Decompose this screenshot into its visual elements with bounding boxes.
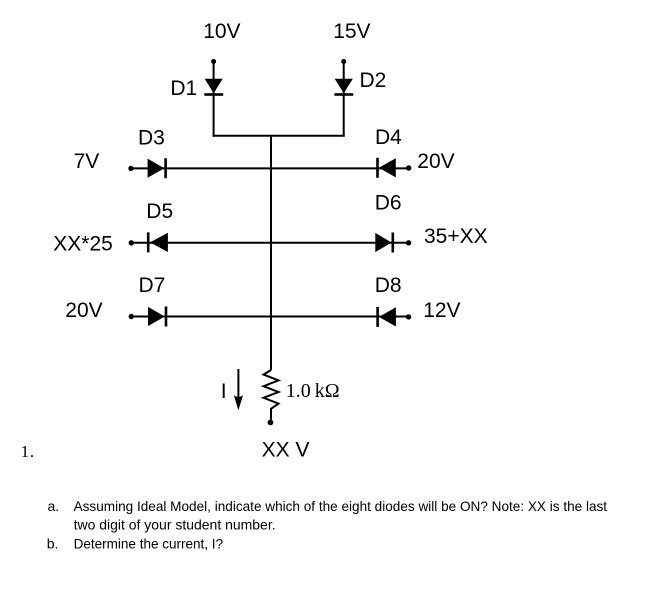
- svg-text:D1: D1: [170, 77, 197, 100]
- diode D6 (cathode right): [375, 233, 394, 253]
- svg-text:a.: a.: [48, 498, 60, 514]
- svg-text:Determine the current, I?: Determine the current, I?: [74, 535, 224, 551]
- wire: 10V terminal to top bus: [213, 62, 215, 137]
- wire: 15V terminal to top bus: [343, 62, 345, 137]
- node dot: 12V terminal row3: [406, 314, 411, 319]
- node dot: 7V terminal: [128, 166, 133, 171]
- svg-text:D2: D2: [360, 69, 387, 92]
- svg-text:1.0kΩ: 1.0kΩ: [286, 380, 340, 402]
- svg-text:15V: 15V: [333, 20, 370, 43]
- svg-text:35+XX: 35+XX: [424, 225, 488, 248]
- svg-text:20V: 20V: [65, 299, 102, 322]
- svg-text:10V: 10V: [203, 20, 240, 43]
- svg-text:I: I: [221, 380, 227, 403]
- node dot: 20V terminal row3: [129, 314, 134, 319]
- diode D7 (cathode right): [148, 307, 167, 327]
- diode D5 (cathode left): [147, 232, 168, 252]
- svg-text:D6: D6: [375, 192, 402, 215]
- wire: row 2 horizontal (XX*25 to 35+XX): [131, 242, 408, 244]
- wire: center vertical node line: [270, 136, 272, 370]
- svg-text:D3: D3: [138, 126, 165, 149]
- wire: row 1 horizontal (7V to 20V): [131, 167, 409, 169]
- svg-text:b.: b.: [47, 535, 59, 551]
- current arrow I shaft: [237, 369, 239, 399]
- diode D2 (cathode down): [334, 79, 353, 96]
- diode D3 (cathode right): [148, 158, 167, 178]
- diode D4 (cathode left): [376, 158, 396, 178]
- svg-text:1.: 1.: [21, 442, 35, 461]
- svg-text:D4: D4: [375, 126, 402, 149]
- diode D1 (cathode down): [204, 79, 223, 96]
- diode D8 (cathode left): [376, 307, 396, 327]
- node dot: 10V terminal: [211, 59, 216, 64]
- svg-text:20V: 20V: [417, 150, 454, 173]
- node dot: XX*25 terminal: [129, 240, 134, 245]
- wire: top bus horizontal: [213, 135, 345, 137]
- svg-text:D8: D8: [375, 274, 402, 297]
- svg-text:7V: 7V: [74, 150, 100, 173]
- node dot: 20V terminal row1: [406, 165, 411, 170]
- svg-text:D7: D7: [139, 274, 166, 297]
- node dot: 15V terminal: [341, 59, 346, 64]
- node dot: XX V bottom terminal: [268, 420, 274, 426]
- svg-text:12V: 12V: [423, 299, 460, 322]
- svg-text:two digit of your student numb: two digit of your student number.: [74, 516, 276, 532]
- svg-text:D5: D5: [146, 200, 173, 223]
- current arrow I head: [234, 395, 243, 410]
- wire: row 3 horizontal (20V to 12V): [131, 316, 408, 318]
- svg-text:XX V: XX V: [262, 438, 310, 461]
- node dot: 35+XX terminal: [406, 240, 411, 245]
- svg-text:XX*25: XX*25: [53, 232, 113, 255]
- resistor R1 1.0k zigzag: [264, 370, 279, 420]
- svg-text:Assuming Ideal Model, indicate: Assuming Ideal Model, indicate which of …: [74, 498, 608, 514]
